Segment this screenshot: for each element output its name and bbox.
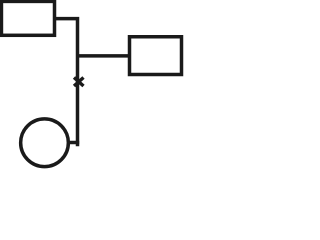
right rectangle (male box) <box>130 37 182 75</box>
wire from top-left box to vertical line <box>54 19 78 147</box>
top-left rectangle (male box) <box>1 1 54 35</box>
X mark on vertical line <box>74 78 84 87</box>
circle (female) <box>21 119 69 167</box>
wire stub to circle <box>68 141 80 145</box>
wire branch to right box <box>76 54 130 58</box>
